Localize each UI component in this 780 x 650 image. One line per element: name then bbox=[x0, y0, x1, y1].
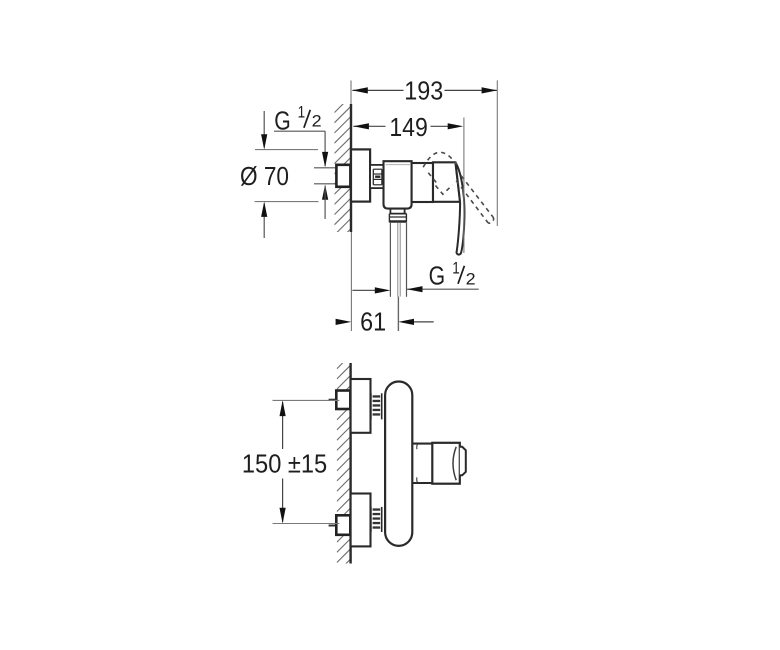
knob end cap bbox=[460, 447, 466, 476]
svg-text:61: 61 bbox=[360, 306, 386, 336]
handle knob (front view) bbox=[432, 443, 460, 484]
handle dome bbox=[433, 162, 460, 202]
dimension 193 bbox=[352, 75, 497, 226]
svg-text:1: 1 bbox=[452, 259, 460, 277]
connection nipple flange-to-body bbox=[370, 165, 383, 188]
wall hatching (front view) bbox=[337, 355, 351, 583]
top threaded nipple (knurled) bbox=[371, 393, 382, 419]
wall line (front view) bbox=[349, 363, 351, 564]
wall line (side view) bbox=[350, 104, 352, 232]
svg-text:2: 2 bbox=[312, 113, 322, 131]
escutcheon flange bbox=[351, 149, 370, 201]
supply pipe stub behind wall bbox=[314, 167, 336, 169]
dimension 149 bbox=[353, 112, 464, 253]
bottom union nut bbox=[336, 515, 350, 535]
svg-text:150 ±15: 150 ±15 bbox=[242, 448, 327, 478]
svg-text:G: G bbox=[429, 260, 446, 290]
svg-text:149: 149 bbox=[389, 112, 428, 142]
lever (rest position) bbox=[456, 163, 465, 255]
wall extension line below (61 datum) bbox=[350, 232, 352, 331]
outlet pipe G1/2 bbox=[390, 223, 406, 297]
union nut behind wall bbox=[336, 165, 350, 187]
outlet neck bbox=[389, 209, 391, 214]
valve body bbox=[384, 161, 412, 208]
phantom lever (dashed, open position) bbox=[423, 152, 493, 223]
wall extension line above (193/149 datum) bbox=[350, 81, 352, 105]
svg-text:Ø 70: Ø 70 bbox=[240, 161, 289, 191]
dimension 61 bbox=[336, 306, 434, 336]
cartridge cap bbox=[412, 163, 433, 202]
top supply pipe stub bbox=[329, 399, 337, 401]
bottom escutcheon block bbox=[351, 494, 371, 547]
top escutcheon block bbox=[351, 379, 371, 433]
G 1/2 label top-left (wall thread callout) bbox=[274, 103, 328, 219]
knob face arc bbox=[453, 447, 456, 480]
outlet collar bbox=[389, 214, 406, 223]
G 1/2 label bottom (outlet thread callout) bbox=[352, 259, 478, 293]
dimension diameter 70 bbox=[240, 111, 319, 238]
handle neck (front view) bbox=[412, 443, 432, 445]
svg-text:2: 2 bbox=[466, 270, 476, 288]
svg-text:1: 1 bbox=[298, 103, 306, 121]
svg-text:193: 193 bbox=[404, 75, 443, 105]
dimension 150 +/-15 bbox=[242, 400, 339, 523]
bottom supply pipe stub bbox=[329, 525, 337, 527]
bottom threaded nipple (knurled) bbox=[371, 507, 382, 532]
top union nut bbox=[336, 391, 350, 410]
outlet pipe centreline extension bbox=[397, 297, 399, 332]
body capsule (front view) bbox=[385, 382, 412, 546]
wall hatching (side view) bbox=[334, 96, 351, 255]
